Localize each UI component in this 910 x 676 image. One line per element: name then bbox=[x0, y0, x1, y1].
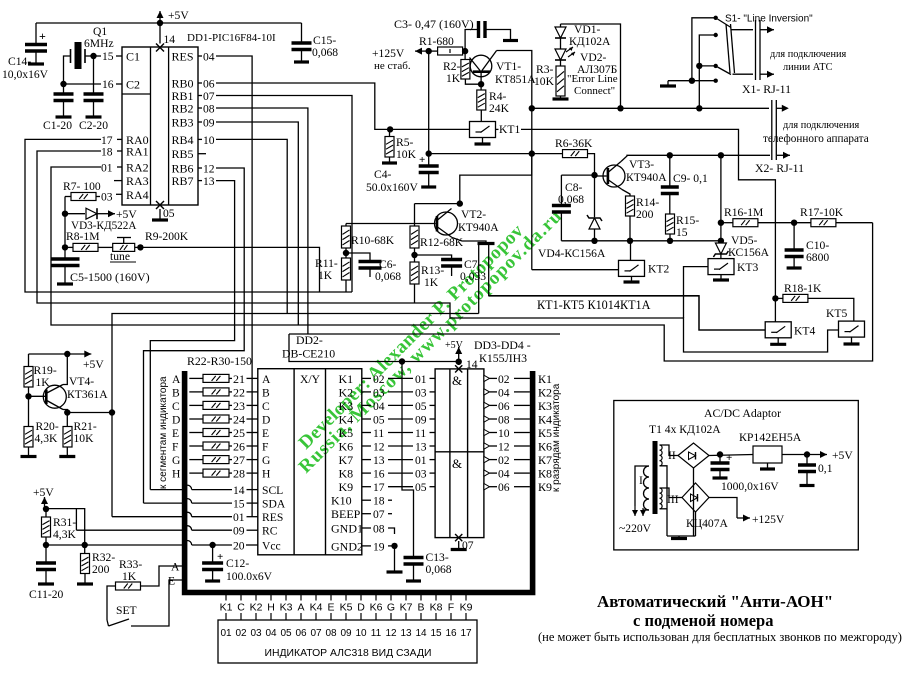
node R16-R17 bbox=[791, 220, 797, 226]
node VT1 emitter bbox=[478, 81, 484, 87]
diode VD3 KD522A bbox=[65, 213, 85, 215]
ground C2 bbox=[86, 115, 102, 118]
node R8-C5 bbox=[62, 244, 68, 250]
svg-text:Connect": Connect" bbox=[574, 85, 615, 97]
svg-text:04: 04 bbox=[265, 628, 277, 639]
svg-text:K4: K4 bbox=[310, 602, 323, 614]
zener VD4 KC156A bbox=[594, 175, 596, 217]
node KT1-R5 bbox=[387, 126, 393, 132]
svg-text:X/Y: X/Y bbox=[300, 373, 321, 386]
svg-text:DD2-: DD2- bbox=[296, 333, 323, 347]
svg-text:K6: K6 bbox=[370, 602, 383, 614]
svg-text:к разрядам индикатора: к разрядам индикатора bbox=[551, 383, 562, 492]
DD3 inverter output row 6 bbox=[484, 443, 490, 449]
switch blade S1 lower bbox=[718, 67, 732, 75]
svg-text:02: 02 bbox=[498, 454, 510, 467]
svg-text:K9: K9 bbox=[339, 480, 354, 494]
regulator KR142EN5A bbox=[753, 446, 782, 463]
ground C11 bbox=[38, 582, 54, 585]
wire R9 down to bus line A bbox=[140, 247, 319, 292]
svg-text:16: 16 bbox=[445, 628, 457, 639]
wire VT2 emitter to ground bbox=[452, 238, 486, 243]
wire R12 to collector bbox=[415, 203, 460, 205]
wire branch to C13 bbox=[402, 362, 414, 557]
svg-text:28: 28 bbox=[233, 467, 245, 481]
wire bus A2 segment to KT4 bbox=[489, 296, 765, 330]
svg-text:08: 08 bbox=[203, 103, 215, 116]
svg-text:0,068: 0,068 bbox=[312, 46, 338, 59]
capacitor C10 6800 bbox=[793, 223, 795, 249]
wire R33 to SET switch bbox=[107, 586, 116, 620]
wire +125V output bbox=[709, 498, 737, 519]
resistor R3 10K bbox=[556, 66, 565, 96]
svg-text:14: 14 bbox=[415, 628, 427, 639]
node R12-R13 bbox=[411, 252, 417, 258]
svg-text:+125V: +125V bbox=[372, 47, 405, 60]
svg-text:VT1-: VT1- bbox=[496, 60, 521, 73]
wire S1 contact2 down to line bbox=[699, 35, 715, 108]
svg-text:G: G bbox=[387, 602, 395, 614]
svg-text:A: A bbox=[297, 602, 304, 614]
svg-text:26: 26 bbox=[233, 440, 245, 454]
crystal Q1 6MHz bbox=[75, 42, 82, 69]
wire KT3 control bbox=[684, 267, 709, 318]
svg-text:14: 14 bbox=[233, 484, 245, 497]
svg-text:GND1: GND1 bbox=[331, 522, 363, 536]
wire C8 top bbox=[561, 174, 594, 176]
wire VT1 collector to line-sense node bbox=[497, 51, 532, 270]
svg-text:S1- "Line Inversion": S1- "Line Inversion" bbox=[725, 14, 813, 25]
svg-text:K3: K3 bbox=[280, 602, 293, 614]
wire pin17 RA0 to bus line A bbox=[117, 138, 122, 140]
svg-text:4,3K: 4,3K bbox=[35, 432, 58, 445]
svg-text:07: 07 bbox=[310, 628, 322, 639]
svg-text:X2- RJ-11: X2- RJ-11 bbox=[755, 161, 804, 175]
wire mains lead 2 bbox=[643, 509, 649, 511]
node R31 top bbox=[43, 506, 49, 512]
svg-text:DD1-PIC16F84-10I: DD1-PIC16F84-10I bbox=[187, 32, 276, 44]
svg-text:+5V: +5V bbox=[832, 449, 853, 462]
capacitor C13 0,068 bbox=[404, 558, 424, 565]
wire SET to pin E bbox=[131, 580, 182, 626]
ground R21 bbox=[59, 455, 75, 458]
wire RC branch bbox=[75, 509, 77, 531]
ground C10 bbox=[787, 266, 802, 269]
node C filter bbox=[717, 451, 723, 457]
svg-text:6MHz: 6MHz bbox=[84, 37, 114, 50]
svg-text:K9: K9 bbox=[460, 602, 473, 614]
svg-text:G: G bbox=[262, 454, 271, 467]
svg-text:A: A bbox=[172, 373, 181, 386]
svg-text:R16-1M: R16-1M bbox=[724, 206, 763, 219]
svg-text:09: 09 bbox=[415, 414, 427, 427]
svg-text:+5V: +5V bbox=[33, 486, 54, 499]
svg-text:R10-68K: R10-68K bbox=[351, 234, 395, 247]
svg-text:линии АТС: линии АТС bbox=[783, 62, 833, 73]
svg-text:1000,0x16V: 1000,0x16V bbox=[721, 480, 779, 493]
ground R20 bbox=[21, 455, 37, 458]
node R15 bottom bbox=[667, 238, 673, 244]
wire regulator output +5V bbox=[782, 454, 807, 456]
wire VD1 top to line sense bbox=[561, 24, 621, 108]
svg-text:17: 17 bbox=[373, 481, 385, 494]
svg-text:13: 13 bbox=[400, 628, 412, 639]
ground C14 bbox=[28, 62, 44, 65]
svg-text:К1: К1 bbox=[538, 372, 552, 386]
+5V symbol top bbox=[157, 11, 164, 23]
svg-text:01: 01 bbox=[220, 628, 232, 639]
svg-text:VD4-КС156А: VD4-КС156А bbox=[538, 247, 606, 260]
capacitor C14 bbox=[35, 23, 37, 43]
ground R32 bbox=[77, 582, 93, 585]
wire pin04 to DD2 RES column bbox=[216, 56, 252, 517]
svg-text:100.0x6V: 100.0x6V bbox=[226, 570, 273, 583]
capacitor C6 0,068 bbox=[346, 253, 370, 260]
DD3 inverter output row 3 bbox=[484, 402, 490, 408]
svg-text:КЦ407А: КЦ407А bbox=[686, 517, 728, 530]
connector X2 RJ-11 bbox=[771, 100, 773, 160]
svg-text:RES: RES bbox=[262, 511, 283, 524]
svg-text:DB-CE210: DB-CE210 bbox=[282, 347, 335, 361]
transistor VT3 KT940A bbox=[603, 165, 625, 187]
wire DD2 RES row bbox=[112, 516, 183, 518]
DD3 inverter output row 2 bbox=[484, 389, 490, 395]
svg-text:C5-1500 (160V): C5-1500 (160V) bbox=[70, 270, 150, 284]
svg-text:18: 18 bbox=[101, 146, 113, 159]
node VD3 anode bbox=[62, 211, 68, 217]
indicator connector box ALS318 bbox=[218, 620, 477, 663]
svg-text:12: 12 bbox=[385, 628, 397, 639]
node DD3 supply branch bbox=[399, 358, 405, 364]
svg-text:+: + bbox=[217, 551, 223, 563]
svg-text:RA4: RA4 bbox=[126, 188, 149, 202]
wire VT2 collector node bbox=[460, 154, 532, 204]
node C4 bbox=[426, 150, 432, 156]
svg-text:01: 01 bbox=[415, 454, 427, 467]
svg-text:КТ940А: КТ940А bbox=[626, 171, 667, 184]
transformer T1 core bbox=[653, 441, 658, 514]
svg-text:+: + bbox=[39, 29, 46, 43]
svg-text:KT2: KT2 bbox=[648, 263, 669, 276]
resistor R31 4,3K bbox=[42, 517, 51, 537]
capacitor C11 20 bbox=[45, 545, 47, 562]
ground R3 bbox=[553, 97, 569, 100]
svg-text:14: 14 bbox=[466, 358, 478, 371]
+5V arrow VT4 bbox=[67, 351, 91, 358]
svg-text:07: 07 bbox=[203, 90, 215, 103]
svg-text:06: 06 bbox=[203, 78, 215, 91]
resistor R5 10K bbox=[385, 137, 394, 158]
watermark line 1: Developer: Alexander P. Protopopov bbox=[295, 205, 567, 477]
svg-text:1K: 1K bbox=[424, 276, 439, 289]
svg-text:H: H bbox=[262, 468, 271, 481]
transformer coil I bbox=[644, 466, 650, 510]
svg-text:КС156А: КС156А bbox=[728, 246, 770, 259]
svg-text:0,1: 0,1 bbox=[818, 462, 833, 475]
pin 13 DD1 stub bbox=[198, 180, 202, 182]
DD3 inverter output row 7 bbox=[484, 456, 490, 462]
svg-text:05: 05 bbox=[415, 400, 427, 413]
svg-text:C1-20: C1-20 bbox=[43, 119, 72, 132]
ground C13 bbox=[406, 579, 421, 582]
IC DD1 PIC16F84-10I bbox=[122, 47, 198, 205]
pin 04 DD1 stub bbox=[198, 55, 202, 57]
pin 10 DD1 stub bbox=[198, 138, 202, 140]
node GND2 bbox=[391, 543, 397, 549]
svg-text:RES: RES bbox=[172, 50, 194, 64]
node C12 top bbox=[209, 542, 215, 548]
resistor R14 200 bbox=[626, 196, 635, 216]
ground regulator bbox=[760, 467, 775, 470]
wire DD2 RC row bbox=[76, 529, 183, 531]
DD3 inverter output row 4 bbox=[484, 416, 490, 422]
svg-text:C1: C1 bbox=[126, 50, 140, 64]
node R16 left bbox=[718, 220, 724, 226]
svg-text:C: C bbox=[172, 400, 180, 413]
svg-text:10K: 10K bbox=[534, 75, 555, 88]
svg-text:R1-680: R1-680 bbox=[419, 35, 454, 48]
relay KT4 bbox=[765, 322, 791, 338]
svg-text:RA3: RA3 bbox=[126, 174, 149, 188]
+5V DD3 pin14 bbox=[455, 347, 462, 359]
svg-text:08: 08 bbox=[498, 414, 510, 427]
svg-text:DD3-DD4 -: DD3-DD4 - bbox=[474, 338, 531, 352]
svg-text:1K: 1K bbox=[318, 269, 333, 282]
wire KT2 control bbox=[532, 269, 619, 271]
svg-text:14: 14 bbox=[164, 33, 176, 46]
svg-text:X1- RJ-11: X1- RJ-11 bbox=[742, 82, 791, 96]
resistor R32 200 bbox=[81, 554, 90, 574]
wire mains lead 1 bbox=[635, 466, 649, 506]
capacitor C2-20 bbox=[93, 56, 95, 93]
svg-text:05: 05 bbox=[373, 414, 385, 427]
svg-text:RB4: RB4 bbox=[172, 133, 194, 147]
capacitor C1-20 bbox=[63, 84, 65, 93]
svg-text:04: 04 bbox=[498, 468, 510, 481]
svg-text:05: 05 bbox=[163, 207, 175, 220]
svg-text:+125V: +125V bbox=[752, 513, 785, 526]
svg-text:15: 15 bbox=[233, 498, 245, 511]
svg-text:К3: К3 bbox=[538, 399, 552, 413]
wire pin18 RA1 to bus line B bbox=[117, 150, 122, 152]
svg-text:04: 04 bbox=[498, 386, 510, 399]
node RES column top bbox=[109, 409, 115, 415]
wire pin08 to bus line E bbox=[216, 108, 308, 334]
node VD4 bottom bbox=[591, 238, 597, 244]
ground T1 bbox=[671, 537, 687, 540]
svg-text:08: 08 bbox=[373, 523, 385, 536]
svg-text:tune: tune bbox=[110, 250, 130, 263]
svg-text:50.0x160V: 50.0x160V bbox=[366, 181, 418, 194]
svg-text:10K: 10K bbox=[396, 148, 417, 161]
svg-text:A: A bbox=[171, 561, 180, 574]
node VT2 collector bbox=[457, 200, 463, 206]
ground C5 bbox=[57, 282, 73, 285]
trimmer R9 200K tune bbox=[113, 243, 135, 251]
svg-text:D: D bbox=[262, 414, 270, 427]
ground C15 bbox=[294, 60, 309, 63]
relay KT5 bbox=[839, 321, 865, 337]
wire ground branch S1 bbox=[668, 80, 716, 82]
wire common 240.8 rail bbox=[561, 240, 721, 242]
svg-text:C14-: C14- bbox=[8, 55, 31, 68]
svg-text:VT2-: VT2- bbox=[461, 208, 486, 221]
node R10-R11 bbox=[343, 250, 349, 256]
svg-text:SCL: SCL bbox=[262, 484, 283, 497]
IC DD3-DD4 K155LN3 bbox=[435, 369, 484, 538]
connector X1 RJ-11 bbox=[726, 24, 730, 73]
svg-text:T1 4х КД102А: T1 4х КД102А bbox=[649, 423, 721, 436]
svg-text:16: 16 bbox=[373, 468, 385, 481]
node line sense top bbox=[529, 105, 535, 111]
wire pin12 to DD2 SDA bbox=[144, 168, 245, 503]
svg-text:10K: 10K bbox=[74, 432, 95, 445]
svg-text:&: & bbox=[452, 373, 462, 388]
resistor R12 68K bbox=[410, 226, 419, 248]
svg-text:E: E bbox=[327, 602, 334, 614]
svg-text:12: 12 bbox=[498, 441, 510, 454]
rectifier bridge VD lower KTs407A bbox=[682, 483, 709, 512]
wire C4 node line bbox=[429, 153, 563, 155]
svg-text:R6-36K: R6-36K bbox=[555, 137, 593, 150]
svg-text:A: A bbox=[262, 373, 271, 386]
pin 14 DD1 power bbox=[159, 23, 161, 44]
DD3 inverter output row 8 bbox=[484, 470, 490, 476]
svg-text:C3- 0,47 (160V): C3- 0,47 (160V) bbox=[394, 17, 474, 31]
ground KT5 bbox=[851, 337, 853, 343]
wire R33 to pin A bbox=[141, 566, 183, 586]
svg-text:D: D bbox=[172, 414, 180, 427]
ground S1 bbox=[660, 84, 676, 87]
svg-text:~220V: ~220V bbox=[619, 522, 652, 535]
wire +5V VT4 bbox=[29, 353, 68, 355]
svg-text:11: 11 bbox=[415, 427, 426, 440]
wire Q1 right plate to pin15 bbox=[85, 55, 101, 57]
svg-text:F: F bbox=[172, 441, 179, 454]
svg-text:+: + bbox=[419, 154, 425, 166]
svg-text:20: 20 bbox=[233, 540, 245, 553]
svg-text:04: 04 bbox=[203, 51, 215, 64]
svg-text:VT4-: VT4- bbox=[69, 375, 94, 388]
transistor VT1 KT851A bbox=[470, 55, 492, 77]
resistor R21 10K bbox=[63, 427, 72, 448]
DD3 inverter output row 9 bbox=[484, 484, 490, 490]
svg-text:AC/DC Adaptor: AC/DC Adaptor bbox=[704, 406, 781, 420]
svg-text:03: 03 bbox=[250, 628, 262, 639]
transformer coil II bbox=[660, 445, 663, 466]
svg-text:15: 15 bbox=[676, 226, 688, 239]
svg-text:K8: K8 bbox=[339, 467, 354, 481]
svg-text:17: 17 bbox=[460, 628, 472, 639]
node VT4 base bbox=[25, 393, 31, 399]
svg-text:12: 12 bbox=[203, 163, 215, 176]
svg-text:R7- 100: R7- 100 bbox=[63, 180, 101, 193]
capacitor C5 1500 160V bbox=[64, 247, 66, 257]
svg-text:C11-20: C11-20 bbox=[29, 588, 64, 601]
zener VD5 KC156A bbox=[713, 243, 728, 257]
node R31 bottom bbox=[43, 542, 49, 548]
wire DD2 SDA row bbox=[144, 502, 184, 504]
svg-text:"Error Line: "Error Line bbox=[567, 73, 618, 85]
resistor R19 1K bbox=[24, 367, 33, 388]
svg-text:13: 13 bbox=[415, 441, 427, 454]
pin 12 DD1 stub bbox=[198, 167, 202, 169]
svg-text:0,068: 0,068 bbox=[426, 563, 452, 576]
svg-text:ИНДИКАТОР АЛС318 ВИД СЗАДИ: ИНДИКАТОР АЛС318 ВИД СЗАДИ bbox=[265, 648, 432, 659]
svg-text:к сегментам индикатора: к сегментам индикатора bbox=[158, 376, 169, 489]
svg-text:(не может быть использован для: (не может быть использован для бесплатны… bbox=[538, 630, 902, 644]
wire KT4 feed from emitter node bbox=[489, 245, 766, 330]
wire pin10 to bus line C bbox=[216, 139, 287, 313]
svg-text:03: 03 bbox=[415, 386, 427, 399]
svg-text:10,0x16V: 10,0x16V bbox=[2, 68, 49, 81]
svg-text:B: B bbox=[417, 602, 424, 614]
wire R13 bottom to bus line B bbox=[414, 284, 416, 303]
svg-text:K7: K7 bbox=[400, 602, 413, 614]
svg-text:К2: К2 bbox=[538, 385, 552, 399]
svg-text:для подключения: для подключения bbox=[783, 120, 859, 131]
svg-text:D: D bbox=[357, 602, 365, 614]
svg-text:+5V: +5V bbox=[168, 9, 189, 22]
svg-text:не стаб.: не стаб. bbox=[374, 60, 411, 72]
svg-text:RA1: RA1 bbox=[126, 145, 149, 159]
svg-text:R17-10K: R17-10K bbox=[800, 206, 844, 219]
rectifier bridge VD upper bbox=[678, 443, 709, 468]
wire collector to RES column bbox=[67, 412, 112, 414]
svg-text:200: 200 bbox=[636, 208, 654, 221]
diode VD1 KD102A bbox=[560, 24, 562, 27]
svg-text:24: 24 bbox=[233, 413, 245, 427]
node R32 top bbox=[82, 542, 88, 548]
wire coil III bottom bbox=[660, 508, 668, 510]
svg-text:R18-1K: R18-1K bbox=[784, 282, 822, 295]
IC DD2 DB-CE210 bbox=[258, 369, 362, 555]
ground KT3 bbox=[720, 275, 722, 279]
node S1 branch bbox=[696, 105, 702, 111]
svg-text:KT5: KT5 bbox=[826, 307, 847, 320]
ground C1 bbox=[56, 115, 72, 118]
svg-text:C12-: C12- bbox=[226, 557, 249, 570]
svg-text:05: 05 bbox=[415, 481, 427, 494]
svg-text:22: 22 bbox=[233, 385, 245, 399]
relay KT1 bbox=[470, 122, 496, 138]
wire pin09 to bus line D bbox=[216, 122, 298, 325]
svg-text:GND2: GND2 bbox=[331, 539, 363, 553]
svg-text:K10: K10 bbox=[331, 494, 352, 508]
svg-text:11: 11 bbox=[371, 628, 382, 639]
wire R18 to KT5 bbox=[808, 298, 854, 321]
node X2 lower C9 bbox=[667, 152, 673, 158]
wire coil II to bridge bbox=[660, 445, 679, 456]
svg-text:К8: К8 bbox=[538, 467, 552, 481]
svg-text:RC: RC bbox=[262, 525, 278, 538]
node VD5 top bbox=[718, 238, 724, 244]
svg-text:R8-1M: R8-1M bbox=[66, 230, 100, 243]
wire KT1 control line bbox=[390, 128, 469, 130]
wire +5V top rail bbox=[36, 22, 302, 24]
svg-text:02: 02 bbox=[498, 373, 510, 386]
svg-text:K5: K5 bbox=[340, 602, 353, 614]
resistor R11 1K bbox=[342, 258, 351, 280]
wire KT1 to phone line X2 bbox=[496, 128, 499, 130]
transistor VT2 KT940A bbox=[435, 212, 458, 235]
wire pin07 to bus line A bbox=[216, 96, 352, 293]
resistor R10 68K bbox=[342, 226, 351, 248]
node R14 bottom bbox=[627, 238, 633, 244]
indicator bus frame bbox=[185, 371, 533, 593]
ground DD2 bbox=[387, 570, 403, 573]
svg-text:4,3K: 4,3K bbox=[53, 528, 76, 541]
